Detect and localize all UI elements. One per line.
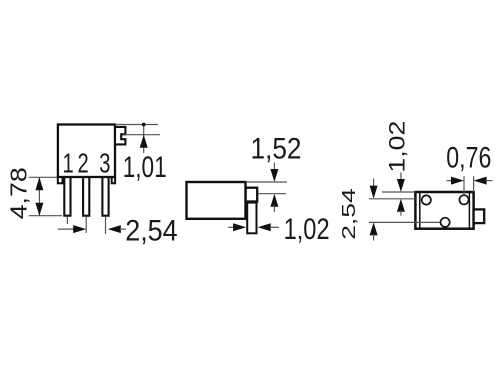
hole top-right (459, 195, 468, 204)
pin 2 (83, 176, 89, 216)
dim extension line C (bottom hole center) (369, 221, 440, 223)
svg-text:2: 2 (77, 148, 88, 179)
svg-text:1,52: 1,52 (251, 133, 302, 166)
dim 1,01 dimension line (143, 125, 145, 154)
standoff foot left (58, 177, 63, 183)
dim 0,76 leader line left (447, 180, 454, 182)
adjustment screw notch (top right) (115, 127, 125, 144)
top body (415, 192, 473, 229)
dim 4,78 arrowhead down (35, 203, 43, 216)
side pin strip (247, 203, 256, 234)
dim 1,52 arrowhead up (270, 194, 278, 207)
svg-text:1: 1 (62, 148, 73, 179)
pin 1 (64, 176, 70, 216)
top view side bump (474, 209, 485, 223)
dim 2,54 (right) arrowhead down (370, 186, 378, 199)
dim 0,76 extension line right (from body edge) (473, 176, 475, 192)
svg-text:2,54: 2,54 (339, 188, 359, 240)
side body (187, 182, 246, 219)
dim 2,54 arrowhead left-pointing (108, 225, 121, 233)
dim extension line B (hole row center) (369, 198, 415, 200)
svg-text:3: 3 (99, 148, 110, 179)
dim 2,54 (right) arrow tail bottom (373, 234, 375, 241)
dim 2,54 tick below pin 2 (85, 217, 87, 233)
svg-text:1,02: 1,02 (284, 213, 330, 246)
dim 1,02 (right) arrowhead down (397, 179, 405, 192)
dim 2,54 (right) arrowhead up (370, 222, 378, 235)
hole bottom-middle (441, 218, 450, 227)
dim 0,76 extension line left (from hole) (463, 176, 465, 195)
dim 0,76 leader line right (486, 180, 493, 182)
standoff foot right (112, 177, 115, 183)
top body inner wall right (468, 192, 470, 229)
dim 1,52 arrowhead down (270, 169, 278, 182)
dim 4,78 extension line bottom (29, 215, 62, 217)
dim 2,54 tick below pin 3 (105, 217, 107, 234)
dim 1,02 (middle) leader line left (228, 226, 235, 228)
dim 1,02 (right) arrowhead up (397, 199, 405, 212)
dim 2,54 leader line left (58, 228, 75, 230)
dim 1,52 arrow tail bottom (273, 206, 275, 213)
dim 1,52 extension line top (246, 181, 288, 183)
dim 2,54 tick below pin 1 (66, 217, 68, 224)
svg-text:1,02: 1,02 (384, 121, 409, 173)
dim 1,02 (right) arrow tail top (400, 173, 402, 181)
hole top-left (422, 195, 431, 204)
svg-text:1,01: 1,01 (123, 151, 167, 184)
dim 0,76 arrowhead right-pointing (451, 177, 464, 185)
dim 1,01 arrowhead up (140, 135, 148, 148)
dim 1,02 (middle) arrowhead left-pointing (258, 223, 271, 231)
side screw bump (246, 188, 258, 202)
svg-text:4,78: 4,78 (5, 167, 31, 219)
svg-text:2,54: 2,54 (125, 214, 178, 247)
dim 1,52 arrow tail top (273, 163, 275, 171)
dim 1,02 (right) extension line A (382, 191, 415, 193)
dim 1,01 extension line top (115, 124, 158, 126)
dim 4,78 extension line top (29, 176, 57, 178)
dim 1,02 (right) arrow tail bottom (400, 211, 402, 216)
dim 2,54 arrowhead right-pointing (73, 225, 86, 233)
dim 1,02 (middle) arrowhead right-pointing (233, 223, 246, 231)
dim 0,76 arrowhead left-pointing (474, 177, 487, 185)
front body (58, 125, 115, 178)
dim 2,54 leader line right (120, 228, 126, 230)
dim 4,78 arrowhead up (35, 177, 43, 190)
pin 3 (102, 176, 108, 216)
dim 2,54 (right) arrow tail top (373, 179, 375, 188)
svg-text:0,76: 0,76 (446, 142, 491, 175)
dim 1,52 extension line bottom (259, 193, 287, 195)
dim 4,78 dimension line (38, 177, 40, 215)
top body inner wall left (419, 192, 421, 229)
dim 1,01 extension line bottom (from notch slot) (124, 134, 160, 136)
dim 1,02 (middle) leader line right (270, 226, 279, 228)
dim 1,01 dot at top reference (142, 123, 146, 127)
